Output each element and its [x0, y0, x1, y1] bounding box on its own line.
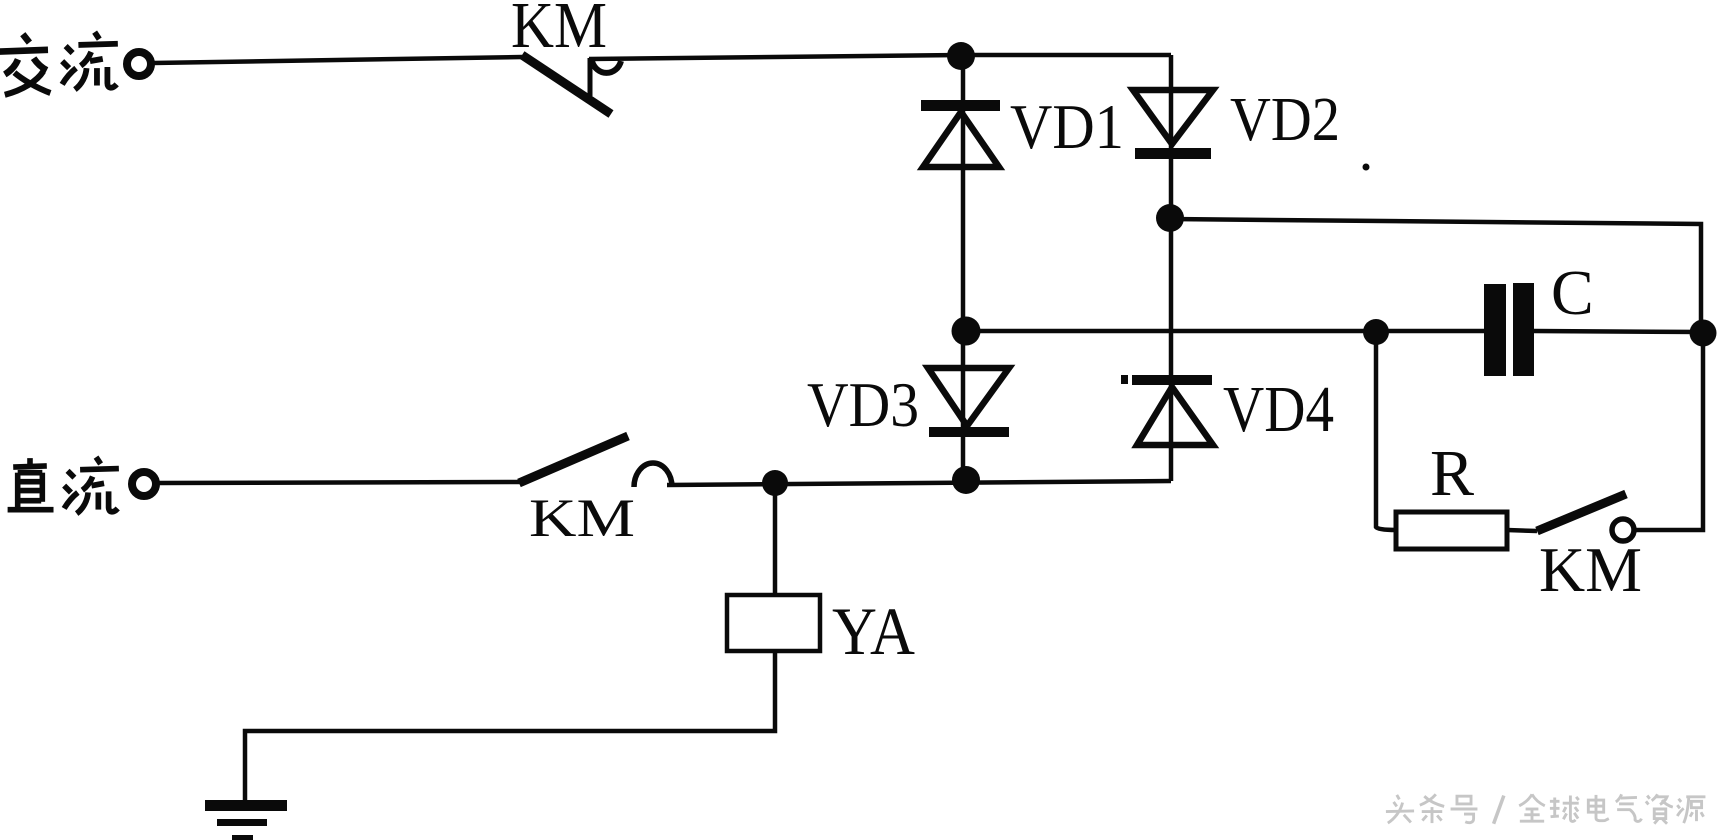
label KM (right)	[1539, 534, 1642, 605]
watermark 气	[1616, 794, 1642, 821]
label 交流 (AC)	[0, 34, 50, 95]
watermark 全	[1519, 794, 1545, 821]
wire capacitor to node E	[1534, 331, 1703, 332]
watermark 头	[1386, 795, 1414, 823]
wire DC input to switch	[158, 482, 520, 483]
wire middle bus	[966, 329, 1484, 334]
node G (junction below VD3)	[952, 466, 980, 494]
node B (junction below VD2)	[1156, 204, 1184, 232]
label VD2	[1230, 86, 1340, 154]
watermark 号	[1451, 796, 1478, 822]
watermark 头条号 / 全球电气资源	[1386, 794, 1706, 823]
wire R to switch	[1507, 530, 1537, 531]
wire switch to node A	[589, 55, 961, 59]
svg-text:VD4: VD4	[1223, 373, 1334, 446]
diode VD1	[921, 100, 1000, 167]
node E (junction right of capacitor)	[1690, 320, 1717, 347]
svg-text:C: C	[1551, 257, 1594, 328]
node F (junction YA tap)	[762, 470, 788, 496]
watermark 条	[1420, 794, 1444, 823]
switch KM top (NC contact)	[522, 55, 621, 114]
wire YA to ground run	[245, 651, 775, 801]
node A (junction dot top)	[947, 42, 975, 70]
watermark 资	[1646, 794, 1673, 823]
svg-text:VD1: VD1	[1010, 91, 1124, 162]
label VD1	[1010, 91, 1124, 162]
label YA	[832, 593, 915, 669]
wire node A to VD2 branch corner	[961, 53, 1171, 58]
node D (junction bus / R branch)	[1363, 319, 1389, 345]
diode VD3	[928, 368, 1009, 437]
switch KM DC (NO contact)	[519, 436, 672, 487]
watermark 电	[1588, 795, 1608, 821]
capacitor C	[1484, 283, 1534, 376]
svg-text:KM: KM	[529, 488, 635, 548]
label 流 (of 交流)	[62, 32, 118, 89]
label VD4	[1223, 373, 1334, 446]
svg-text:KM: KM	[1539, 534, 1642, 605]
wire DC switch to VD4 corner	[667, 481, 1171, 485]
watermark 源	[1677, 797, 1705, 823]
node C1 (junction on bus below VD1)	[952, 317, 981, 346]
svg-text:VD2: VD2	[1230, 86, 1340, 154]
label KM (top)	[511, 0, 607, 62]
label VD3	[807, 369, 919, 440]
diode VD4	[1132, 375, 1213, 445]
switch KM right (NO contact)	[1537, 494, 1634, 541]
label 流 (of 直流)	[64, 457, 119, 513]
wire R branch vertical	[1376, 332, 1396, 530]
svg-text:R: R	[1430, 437, 1474, 510]
ink speck left of VD4	[1121, 375, 1128, 384]
label KM (DC switch)	[529, 488, 635, 548]
resistor R	[1396, 512, 1507, 549]
wire right edge down to switch	[1634, 334, 1703, 530]
label 直流 (DC)	[8, 458, 54, 510]
terminal 直流	[132, 472, 156, 496]
label C	[1551, 257, 1594, 328]
wire VD1 column	[961, 56, 966, 480]
wire node B to right edge	[1170, 219, 1701, 333]
watermark 球	[1550, 796, 1579, 822]
svg-text:VD3: VD3	[807, 369, 919, 440]
coil YA	[727, 595, 820, 651]
label R	[1430, 437, 1474, 510]
wire YA drop	[773, 483, 778, 596]
diode VD2	[1133, 90, 1213, 159]
wire VD2/VD4 column	[1169, 55, 1174, 481]
wire AC input to switch	[153, 57, 522, 63]
svg-text:YA: YA	[832, 593, 915, 669]
terminal 交流	[127, 52, 151, 76]
ground	[205, 800, 287, 840]
ink speck near VD2 label	[1363, 164, 1370, 171]
watermark slash	[1494, 796, 1504, 824]
